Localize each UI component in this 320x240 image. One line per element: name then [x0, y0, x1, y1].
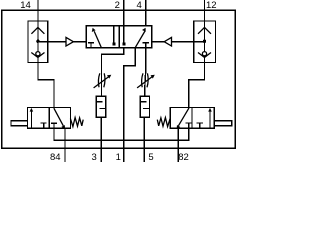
wire shuttle V1 to valve V3: [38, 62, 54, 108]
svg-text:2: 2: [115, 0, 120, 11]
wire port 2 stub: [123, 0, 125, 26]
shuttle valve V2 internal wire: [204, 21, 206, 62]
pilot valve V3 right cell T: [51, 123, 57, 128]
shuttle valve V1 lower check chevron: [36, 52, 40, 56]
main valve left cell blocked port: [113, 26, 115, 43]
wire shuttle V2 to valve V4: [189, 62, 205, 108]
shuttle valve V2 upper seat chevron: [198, 27, 211, 33]
main valve right cell flow arrow 1 to 4: [135, 31, 145, 48]
pilot valve V3 left cell T: [41, 123, 47, 128]
pilot valve V3 right cell flow arrow: [54, 108, 63, 125]
svg-text:14: 14: [20, 0, 31, 11]
main valve left cell exhaust T: [88, 43, 94, 48]
wire port 1 from valve: [124, 48, 136, 162]
shuttle valve V1 junction dot: [36, 40, 39, 43]
shuttle valve V1 internal wire: [37, 21, 39, 62]
pilot valve V3 body: [28, 108, 71, 129]
shuttle valve V2 junction dot: [203, 40, 206, 43]
pilot valve V4 left cell T: [186, 123, 192, 128]
svg-text:5: 5: [148, 152, 153, 162]
shuttle valve V1 lower seat chevron: [31, 53, 44, 58]
throttle F2 arcs: [142, 73, 148, 87]
wire port 3 to bottom: [100, 117, 102, 162]
pilot valve V4 left cell flow arrow: [178, 108, 188, 125]
pilot valve V3 return spring: [70, 118, 83, 127]
pilot wire 14 to amplifier: [38, 41, 66, 43]
restrictor F2 body: [140, 96, 149, 117]
main valve right cell blocked port 2: [123, 26, 125, 43]
wire port 5 from valve: [145, 48, 146, 96]
pilot amplifier triangle right: [164, 37, 171, 46]
pilot wire valve right to amplifier: [152, 41, 164, 43]
pilot amplifier triangle left: [66, 37, 73, 46]
enclosure frame: [2, 10, 235, 148]
pilot wire amplifier to valve left: [73, 41, 86, 43]
restrictor F1 body: [96, 96, 106, 117]
pilot valve V4 right cell arrow up: [209, 111, 211, 128]
pilot valve V3 divider: [48, 108, 50, 129]
svg-text:82: 82: [178, 152, 189, 162]
wire port 3 from valve: [101, 48, 123, 96]
shuttle valve V1 upper seat chevron: [31, 27, 44, 33]
throttle F2 adjust arrow: [137, 77, 152, 88]
wire port 4 stub: [145, 0, 147, 26]
pilot valve V4 body: [170, 108, 214, 129]
pilot valve V4 right cell T: [197, 123, 203, 128]
restrictor F2 meander: [140, 102, 149, 109]
shuttle valve V2 lower seat chevron: [198, 53, 211, 58]
shuttle valve V1 body: [28, 21, 48, 62]
wire port 84 stub: [64, 128, 66, 162]
wire port 12 stub: [204, 0, 206, 21]
svg-text:1: 1: [116, 152, 121, 162]
throttle F1 adjust arrow: [94, 77, 109, 88]
wire port 5 to bottom: [143, 117, 145, 162]
wire bus V3 to V4: [54, 128, 189, 140]
main valve 5/2 body: [86, 26, 152, 48]
svg-text:3: 3: [92, 152, 97, 162]
pilot wire amplifier to shuttle V2: [172, 41, 205, 43]
shuttle valve V2 body: [194, 21, 216, 62]
pilot valve V3 manual button: [11, 121, 28, 126]
main valve left cell flow arrow: [94, 31, 101, 48]
svg-text:84: 84: [50, 152, 61, 162]
svg-text:12: 12: [206, 0, 217, 11]
main valve right cell exhaust T: [143, 43, 149, 48]
pilot valve V4 return spring: [157, 118, 170, 127]
throttle F1 arcs: [98, 73, 104, 87]
wire port 82 stub: [177, 128, 179, 162]
main valve divider: [118, 26, 120, 48]
pilot valve V3 left cell arrow up: [30, 111, 32, 128]
restrictor F1 meander: [96, 102, 106, 109]
svg-text:4: 4: [137, 0, 142, 11]
pilot valve V4 divider: [191, 108, 193, 129]
pilot valve V4 manual button: [214, 121, 232, 126]
wire port 14 stub: [37, 0, 39, 21]
shuttle valve V2 lower check chevron: [202, 52, 206, 56]
